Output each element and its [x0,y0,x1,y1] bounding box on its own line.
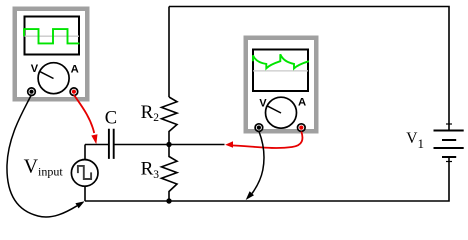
wire top rail from left vertical to battery top [169,7,449,130]
wire bottom rail from V_input to battery bottom [85,158,449,201]
meter M1 red jack [70,88,78,96]
meter M1 black probe lead [7,95,77,218]
wire middle horizontal from capacitor right plate through node to probe point [115,144,225,146]
resistor R2 [162,97,178,145]
wire V_input riser to middle wire [84,145,86,160]
source V_input bottom pin tick [82,185,87,187]
meter M2 red probe arrowhead [225,141,233,147]
svg-text:V: V [259,97,267,109]
meter M2 body frame [244,36,319,134]
meter M2 red jack [298,124,306,132]
meter M2 differentiated-wave trace [253,54,309,68]
meter M2 black probe lead [252,132,264,194]
resistor R3 [162,145,178,202]
meter M1 body frame [13,7,90,102]
node junction dot R2/R3/C [166,142,171,147]
svg-text:V: V [31,63,39,75]
node junction dot R3 bottom [166,198,171,203]
battery V1 bottom pin tick [446,161,452,163]
meter M1 screen midline [25,35,80,37]
meter M1 square-wave trace [24,29,80,43]
meter M1 screen [25,17,80,55]
wire middle horizontal from V_input corner to capacitor left plate [85,144,108,146]
meter M1 black probe arrowhead [75,201,84,208]
meter M2 black probe arrowhead [246,191,254,200]
meter M1 red probe lead [74,95,94,133]
meter M2 needle [267,106,281,113]
battery V1 plates [434,131,464,158]
svg-text:A: A [71,63,79,75]
meter M1 dial [38,63,69,94]
battery V1 top pin tick [446,123,452,125]
meter M1 needle [40,71,54,78]
source V_input square-wave glyph [78,166,91,179]
meter M2 screen [253,50,308,92]
svg-text:C: C [105,108,117,128]
wire left vertical from top rail to R2 [168,7,170,98]
svg-text:A: A [298,97,306,109]
meter M2 black jack [255,124,263,132]
capacitor C plates [109,129,114,159]
wire from V_input bottom to bottom rail [84,186,86,201]
meter M2 screen midline [253,70,308,72]
meter M1 red probe arrowhead [91,134,97,144]
meter M1 black jack [28,88,36,96]
source V_input circle [71,160,98,187]
source V_input top pin tick [82,158,87,160]
meter M2 dial [266,97,297,128]
meter M2 red probe lead [230,132,302,148]
